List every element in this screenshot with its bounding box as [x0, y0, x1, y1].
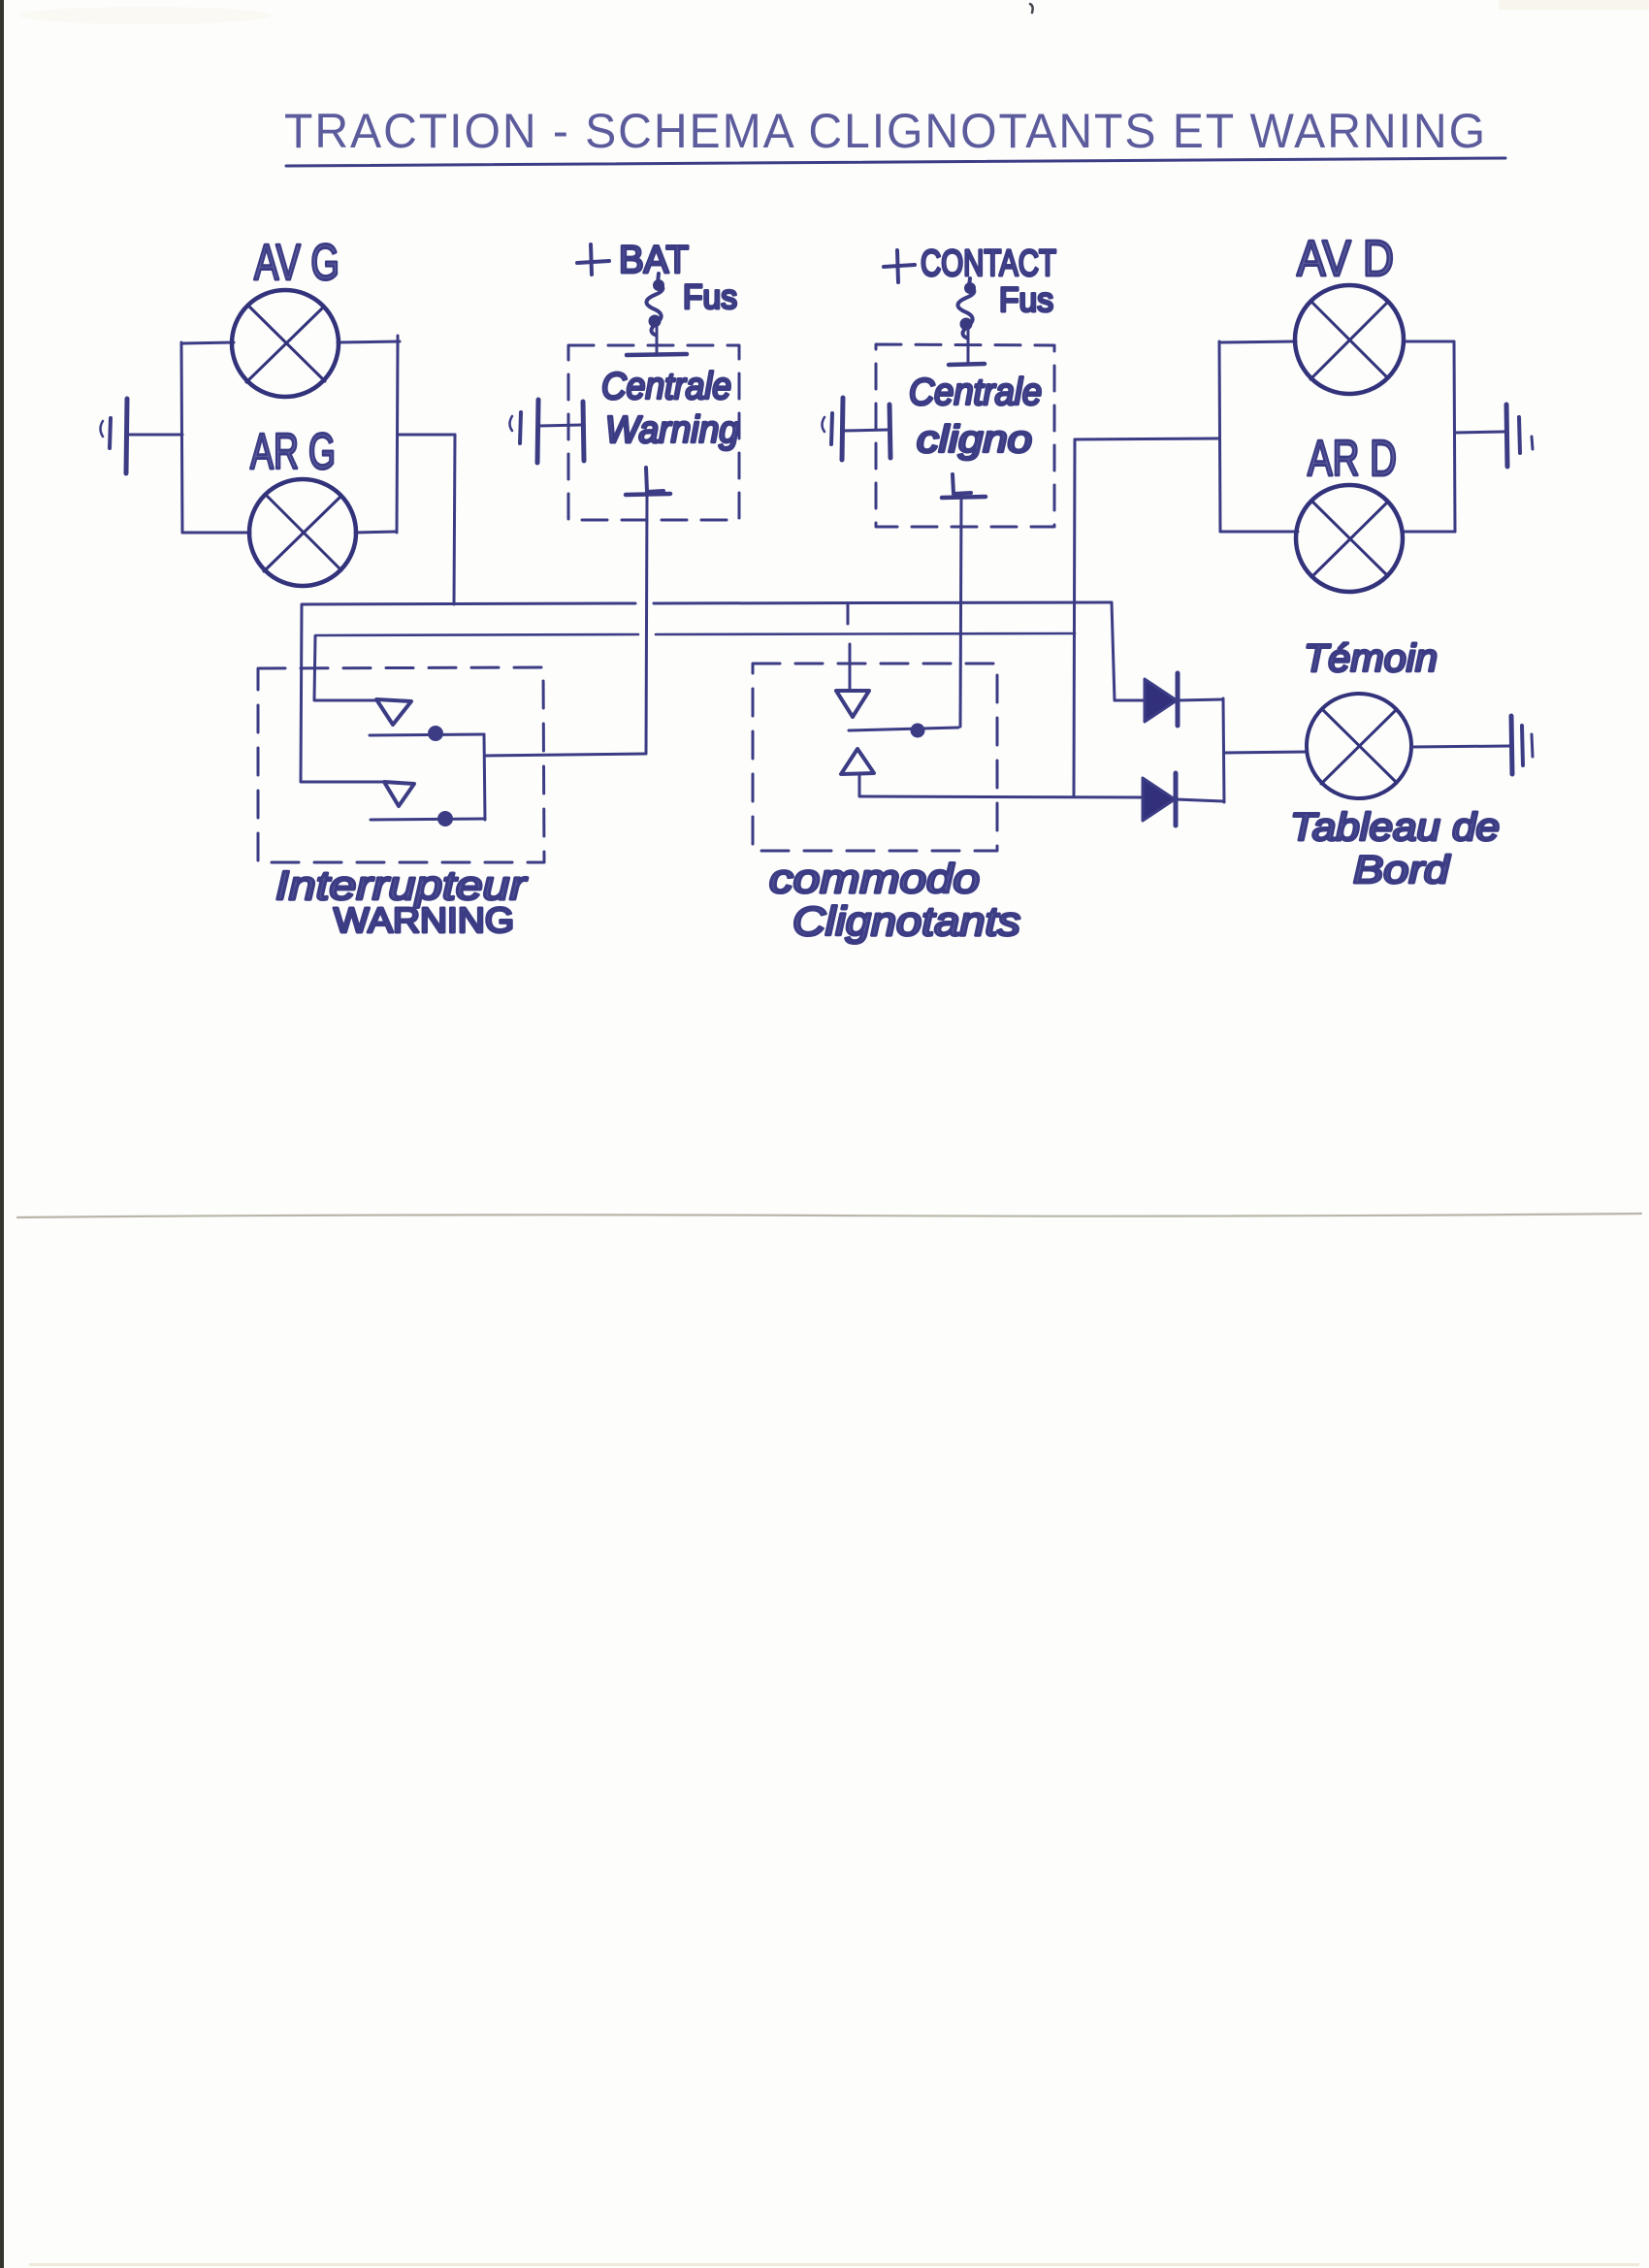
svg-text:Bord: Bord: [1353, 849, 1451, 891]
svg-text:AV G: AV G: [254, 235, 339, 291]
lamp AVD: [1295, 285, 1404, 394]
title underline: [286, 158, 1505, 166]
lamp AVG: [232, 290, 339, 397]
lamp Temoin: [1307, 694, 1411, 798]
wire temoin lamp to ground G5: [1411, 746, 1509, 747]
wire ground G2 to terminal bar: [539, 425, 582, 426]
wire right lamp box top (to AVD rim): [1219, 341, 1296, 342]
wire bus2 left segment: [315, 634, 638, 635]
wire fuse F1 to Centrale Warning terminal: [656, 327, 659, 353]
wire Centrale Warning output to warning switch common: [485, 754, 646, 756]
wire commodo lower contact down and right to diode D2: [859, 774, 1143, 797]
wire bus1 left corner drop to warning switch lower contact: [301, 605, 302, 781]
wire AVG rim to box top-right corner: [338, 336, 400, 349]
wire bus1 left segment: [302, 603, 635, 604]
terminal bar left (Centrale cligno): [889, 405, 890, 458]
faint smudge top-left: [19, 7, 272, 24]
lamp ARD: [1296, 485, 1403, 592]
wire bus1 right corner drop to diode D1: [1112, 602, 1115, 700]
faint cream top-right corner: [1499, 0, 1649, 10]
ground G5 (temoin): [1511, 716, 1533, 774]
junction dot commodo arm: [911, 724, 925, 738]
Centrale cligno box (dashed): [876, 344, 1054, 527]
svg-text:Tableau de: Tableau de: [1290, 806, 1500, 849]
wire ground G3 to terminal bar: [844, 430, 889, 431]
label +BAT: [577, 244, 609, 275]
svg-text:Fus: Fus: [683, 278, 737, 316]
wire lamp box to drop node: [398, 434, 455, 437]
svg-text:Warning: Warning: [605, 409, 739, 451]
svg-text:Clignotants: Clignotants: [792, 898, 1020, 944]
faint cream bottom edge: [29, 2263, 1639, 2266]
wire drop from left lamps to bus1: [454, 435, 455, 604]
svg-text:AR G: AR G: [250, 424, 336, 480]
svg-text:BAT: BAT: [619, 239, 689, 281]
commodo Clignotants box (dashed): [753, 664, 997, 851]
diode D1 (left-turn to temoin): [1115, 673, 1223, 726]
ground G3 (Centrale cligno): [823, 398, 844, 460]
terminal bar left (Centrale Warning): [583, 402, 584, 461]
diode D2 (right-turn to temoin): [1143, 773, 1223, 826]
wire AVD rim to top-right corner: [1404, 340, 1454, 343]
wire bus1 drop to commodo upper contact: [847, 603, 850, 624]
lamp ARG: [249, 479, 356, 586]
wire right feed to AVD/ARD box: [1075, 438, 1219, 439]
Interrupteur WARNING box (dashed): [258, 667, 544, 862]
terminal bottom (Centrale cligno): [953, 474, 971, 494]
speck mark top edge: [1030, 4, 1033, 13]
wire ground G1 to lamp box: [129, 434, 182, 437]
ground G2 (Centrale Warning): [510, 400, 539, 463]
svg-text:Témoin: Témoin: [1304, 637, 1438, 680]
wire right lamp box bottom (to ARD rim): [1220, 531, 1298, 534]
svg-text:Centrale: Centrale: [909, 372, 1042, 413]
wire right lamp box left vertical: [1219, 341, 1220, 532]
svg-text:cligno: cligno: [917, 419, 1032, 461]
junction dot warning lower arm: [437, 811, 453, 826]
terminal bottom (Centrale Warning): [646, 468, 663, 492]
wire fuse F2 to Centrale cligno terminal: [967, 330, 970, 363]
svg-text:Fus: Fus: [999, 281, 1053, 319]
wire left lamp box right vertical: [397, 341, 398, 533]
label +CONTACT: [884, 250, 915, 282]
ground G1 (left, for AVG/ARG lamps): [101, 399, 128, 473]
fuse F2 (squiggle): [957, 278, 974, 338]
wire bus2 left corner drop to warning switch upper contact: [314, 636, 315, 699]
terminal bar top (Centrale cligno): [949, 364, 985, 365]
wire diode junction to temoin lamp: [1224, 752, 1307, 753]
commodo lower contact triangle (up): [841, 749, 874, 774]
warning switch common bar: [484, 734, 485, 820]
svg-text:WARNING: WARNING: [334, 900, 514, 940]
paper fold crease line: [17, 1214, 1641, 1217]
wire left lamp box left vertical: [181, 342, 182, 533]
junction dot warning upper arm: [428, 726, 443, 741]
wire Centrale cligno output down to commodo arm: [960, 499, 961, 727]
wire to warning upper contact: [314, 699, 376, 702]
warning switch lower arm: [371, 819, 485, 820]
wire left lamp box bottom (to ARG rim): [182, 532, 250, 535]
wire bus1 right segment: [654, 602, 1112, 603]
fuse F1 (squiggle): [646, 274, 663, 335]
wire diode outputs join vertical: [1223, 698, 1224, 802]
wire ARG rim to box bottom-right corner: [355, 532, 397, 533]
wire to warning lower contact: [301, 781, 384, 784]
warning switch upper arm: [370, 734, 484, 735]
warning switch upper contact triangle: [376, 699, 411, 725]
commodo switch arm: [849, 728, 958, 730]
svg-text:commodo: commodo: [769, 856, 980, 901]
svg-text:Centrale: Centrale: [601, 366, 731, 407]
wire left lamp box top (to AVG rim): [181, 342, 234, 343]
wire right lamp box right vertical: [1454, 341, 1455, 532]
wire right feed vertical (bus2/right lamps/temoin): [1074, 439, 1075, 796]
terminal bar top (Centrale Warning): [627, 354, 687, 355]
svg-text:AR D: AR D: [1308, 431, 1397, 487]
svg-text:TRACTION - SCHEMA CLIGNOTANTS: TRACTION - SCHEMA CLIGNOTANTS ET WARNING: [284, 104, 1487, 158]
warning switch lower contact triangle: [384, 782, 414, 806]
Centrale Warning box (dashed): [568, 345, 739, 520]
svg-text:AV D: AV D: [1297, 231, 1394, 287]
commodo upper contact triangle (down): [836, 691, 869, 717]
wire bus2 right segment: [656, 633, 1075, 634]
ground G4 (right lamps): [1506, 405, 1533, 467]
wire Centrale Warning output down: [646, 495, 647, 753]
wire ARD rim to bottom-right corner: [1402, 531, 1455, 534]
wire AVD/ARD box to ground G4: [1455, 432, 1504, 433]
svg-text:CONTACT: CONTACT: [921, 243, 1056, 284]
scanner left edge dark strip: [0, 0, 4, 2268]
